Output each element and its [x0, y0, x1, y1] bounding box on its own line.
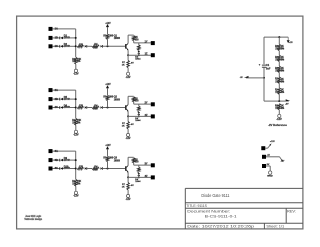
input terminal 3A: [49, 149, 53, 153]
wire collector up: [127, 35, 129, 43]
wire emitter down: [127, 172, 129, 177]
label value 3: [281, 67, 285, 73]
label D2 1N4454: [64, 43, 71, 48]
wire resistor to +12V: [107, 27, 109, 34]
+12V diagonal power arrow: [268, 143, 272, 148]
label 15K: [77, 120, 82, 124]
svg-text:3Z: 3Z: [145, 175, 148, 178]
label +12V: [105, 144, 110, 147]
net label 3C: [55, 166, 58, 170]
-12V power port (emitter): [127, 133, 130, 136]
label 560: [93, 46, 98, 49]
wire to -12V port (reference): [278, 110, 280, 115]
junction pull-up: [107, 107, 109, 109]
resistor R5 (interstage): [138, 45, 141, 50]
junction cap branch: [263, 77, 265, 79]
label -12V (emitter): [126, 138, 132, 140]
output terminal 3Z: [151, 175, 155, 179]
resistor R7 560: [92, 106, 99, 109]
svg-text:Date: 10/27/2012 10:20:26p: Date: 10/27/2012 10:20:26p: [187, 223, 255, 228]
resistor R12 330 (output): [132, 158, 135, 163]
wire to output 1: [134, 164, 151, 166]
wire resistor to -12V port: [127, 190, 129, 195]
svg-text:15K: 15K: [72, 183, 77, 185]
net label 1Z: [145, 53, 148, 56]
svg-text:15K: 15K: [77, 181, 82, 183]
label R25: [275, 104, 285, 110]
svg-text:15K: 15K: [72, 122, 77, 124]
wire resistor to -12V port: [75, 64, 77, 69]
wire to output 1: [134, 103, 151, 105]
label 1K: [122, 126, 125, 128]
output terminal 1Y: [151, 41, 155, 45]
label R4: [94, 165, 98, 168]
resistor R9 (interstage): [138, 106, 141, 111]
resistor R24 (reference chain): [278, 88, 281, 95]
svg-text:TITLE: 9111S: TITLE: 9111S: [186, 203, 207, 208]
label D13: [135, 178, 141, 183]
label R4: [94, 104, 98, 107]
svg-text:-12V: -12V: [126, 138, 132, 140]
label +12V (terminal): [270, 141, 275, 143]
label R3: [103, 35, 107, 38]
input terminal 2B: [49, 97, 53, 101]
svg-text:5%: 5%: [77, 61, 80, 63]
resistor R6 15K (bus pulldown): [75, 118, 78, 125]
resistor R11 560: [92, 167, 99, 170]
svg-text:5%: 5%: [77, 183, 80, 185]
junction bus row2: [75, 37, 77, 39]
wire emitter down: [127, 111, 129, 116]
label value 2: [281, 56, 285, 62]
wire to R4: [87, 168, 92, 170]
label -2V right: [285, 104, 289, 106]
resistor R20 (reference chain): [278, 44, 281, 51]
resistor R10 1K (emitter): [127, 122, 130, 130]
diode D5: [138, 51, 140, 55]
svg-text:390: 390: [109, 157, 114, 160]
wire junction to pull-up resistor: [107, 101, 109, 108]
label +12V (reference): [289, 42, 293, 44]
wire -2V tap left: [246, 77, 264, 79]
svg-text:+12V: +12V: [105, 83, 110, 86]
resistor R6 1K (emitter): [127, 60, 130, 68]
wire 1A to bus: [52, 28, 75, 30]
svg-text:Document Number:: Document Number:: [187, 208, 230, 213]
svg-text:3Y: 3Y: [145, 163, 148, 166]
wire -12V terminal: [266, 156, 280, 158]
document number caption: [187, 208, 230, 213]
wire chain top: [138, 104, 140, 106]
capacitor C1: [259, 64, 266, 68]
label D9: [135, 117, 141, 122]
resistor R25 (to -12V): [278, 104, 281, 110]
designer note line 2: [24, 218, 42, 221]
svg-text:-12V: -12V: [126, 199, 132, 201]
diode D10: [60, 167, 63, 170]
label R7: [122, 184, 126, 186]
-12V diagonal power arrow: [280, 157, 284, 162]
-12V power port (reference): [278, 114, 281, 117]
wire cap branch bottom: [264, 78, 279, 101]
wire chain segment 1: [278, 37, 280, 44]
wire to base junction: [103, 168, 126, 170]
svg-text:Tektronix design: Tektronix design: [24, 218, 42, 221]
label R23: [275, 78, 280, 84]
transistor Q1: [125, 43, 129, 50]
wire 3A to bus: [52, 150, 75, 152]
label 1K: [122, 187, 125, 189]
svg-text:-2V: -2V: [240, 77, 243, 79]
label R5 330: [135, 37, 140, 41]
label Q2 2N3638: [114, 96, 120, 102]
wire junction to pull-up resistor: [107, 39, 109, 46]
svg-text:1K: 1K: [122, 64, 125, 66]
wire 2C to diode D6: [52, 107, 59, 109]
label D1 1N4454: [64, 35, 71, 40]
wire emitter down: [127, 50, 129, 55]
label -6V: [130, 63, 134, 65]
wire to R4: [87, 107, 92, 109]
svg-text:-12V: -12V: [276, 118, 282, 121]
label -12V (emitter): [126, 199, 132, 201]
label -6V: [130, 124, 134, 126]
label D6 1N4454: [64, 104, 71, 109]
wire -2V tap right: [279, 100, 289, 102]
input terminal 1C: [49, 44, 53, 48]
wire 2A to bus: [52, 89, 75, 91]
svg-text:+12V: +12V: [105, 144, 110, 147]
label value 4: [281, 78, 285, 84]
wire resistor to -12V port: [127, 129, 129, 134]
net label 2C: [55, 105, 58, 109]
-2V arrow right: [286, 99, 291, 101]
net label 1Y: [145, 40, 148, 43]
svg-text:-12V: -12V: [73, 195, 79, 198]
label R21: [275, 56, 280, 62]
junction bus row2: [75, 98, 77, 100]
svg-text:270: 270: [79, 43, 84, 46]
wire reference top: [264, 36, 288, 38]
wire 2B to diode D5: [52, 98, 59, 100]
diode D4 (level shift): [101, 45, 103, 48]
net label 1B: [55, 36, 58, 40]
net label 2Y: [145, 102, 148, 105]
label Q3 2N3638: [114, 157, 120, 163]
label -12V (bus): [73, 72, 79, 75]
svg-text:-2V: -2V: [285, 104, 289, 106]
label R5 330: [135, 159, 140, 163]
label R5 330: [135, 98, 140, 102]
diode D1: [60, 37, 63, 40]
label GND: [267, 175, 273, 177]
resistor R21 (reference chain): [278, 55, 281, 62]
wire to output 2: [128, 54, 151, 56]
net label 3B: [55, 158, 58, 162]
ground port circle: [269, 171, 272, 174]
label D10 1N4454: [64, 165, 71, 170]
svg-text:+12V: +12V: [289, 42, 293, 44]
resistor R1 270: [77, 45, 83, 48]
title row TITLE 9111S: [186, 203, 207, 208]
wire to base junction: [103, 107, 126, 109]
label -12V (terminal): [281, 160, 285, 162]
label -2V Reference: [268, 123, 287, 127]
wire 3B to diode D9: [52, 159, 59, 161]
wire D5 to bus: [63, 98, 76, 100]
svg-text:+12V: +12V: [270, 141, 275, 143]
svg-text:5%: 5%: [77, 122, 80, 124]
bus wire vertical: [75, 29, 77, 57]
label R7: [122, 62, 126, 64]
label +12V: [105, 22, 110, 25]
junction bus row3: [75, 168, 77, 170]
svg-text:390: 390: [109, 96, 114, 99]
junction emitter: [127, 176, 129, 178]
diode D6: [60, 106, 63, 109]
label 560: [93, 169, 98, 172]
net label 1C: [55, 44, 58, 48]
svg-text:REV:: REV:: [287, 210, 296, 214]
input terminal 3C: [49, 167, 53, 171]
schematic border frame: [17, 16, 303, 229]
input terminal 1B: [49, 36, 53, 40]
net label 3A: [55, 149, 58, 153]
svg-text:Sheet: 1/1: Sheet: 1/1: [266, 223, 285, 228]
label 270: [79, 166, 84, 169]
+12V power arrow: [106, 146, 109, 149]
net label GND stub: [267, 164, 270, 166]
diode D9: [138, 112, 140, 116]
svg-text:-12V: -12V: [73, 72, 79, 75]
label 390: [109, 96, 114, 99]
junction bus row2: [75, 159, 77, 161]
title text Diode Gate 9111: [201, 193, 229, 198]
label 1K: [122, 64, 125, 66]
-12V power port (emitter): [127, 72, 130, 75]
svg-text:Joes 9111 Logic: Joes 9111 Logic: [25, 215, 42, 218]
wire to output 2: [128, 176, 151, 178]
resistor R23 (reference chain): [278, 77, 281, 84]
svg-text:-6V: -6V: [130, 185, 134, 187]
junction -2V tap: [278, 100, 280, 102]
svg-text:-12V: -12V: [73, 134, 79, 137]
resistor R4 330 (output): [132, 36, 135, 41]
svg-text:B-CS-9111-0-1: B-CS-9111-0-1: [205, 213, 237, 218]
svg-text:2N3638: 2N3638: [114, 98, 120, 101]
input terminal 2A: [49, 88, 53, 92]
svg-text:560: 560: [93, 169, 98, 172]
wire collector up: [127, 96, 129, 104]
svg-text:2N3638: 2N3638: [114, 37, 120, 40]
junction bus row3: [75, 107, 77, 109]
label value 5: [281, 89, 285, 95]
label C1 3uF: [266, 64, 271, 70]
wire chain segment 3: [278, 62, 280, 66]
svg-text:15K: 15K: [77, 59, 82, 61]
net label 3Y: [145, 163, 148, 166]
label 270: [79, 105, 84, 108]
wire collector top: [128, 156, 134, 158]
label +12V: [105, 83, 110, 86]
svg-text:270: 270: [79, 105, 84, 108]
wire resistor to +12V: [107, 88, 109, 95]
wire cap branch down: [263, 37, 265, 64]
label -12V (emitter): [126, 77, 132, 79]
svg-text:1Z: 1Z: [145, 53, 148, 56]
label 560: [93, 108, 98, 111]
wire collector top: [128, 95, 134, 97]
junction bus row3: [75, 45, 77, 47]
wire to R4: [87, 45, 92, 47]
output terminal 1Z: [151, 53, 155, 57]
power terminal +12V: [261, 146, 265, 150]
output terminal 3Y: [151, 163, 155, 167]
+12V power arrow: [106, 24, 109, 27]
wire resistor to -12V port: [75, 125, 77, 130]
wire chain to tap: [278, 94, 280, 101]
wire chain segment 2: [278, 51, 280, 55]
label R10: [72, 181, 77, 185]
wire D10 to bus: [63, 168, 76, 170]
wire junction to pull-up resistor: [107, 162, 109, 169]
label -12V (bus): [73, 134, 79, 137]
wire R5 down: [133, 41, 135, 43]
label R24: [275, 89, 280, 95]
svg-text:15K: 15K: [72, 61, 77, 63]
date row: [187, 223, 255, 228]
label 15K: [77, 181, 82, 185]
svg-text:270: 270: [79, 166, 84, 169]
svg-text:2Z: 2Z: [145, 114, 148, 117]
wire chain segment 4: [278, 73, 280, 77]
svg-text:-12V: -12V: [126, 77, 132, 79]
diode D7 (level shift): [85, 106, 87, 109]
power terminal -12V: [262, 155, 266, 159]
svg-text:15K: 15K: [77, 120, 82, 122]
wire collector up: [127, 157, 129, 165]
label 390: [109, 157, 114, 160]
wire resistor to -12V port: [75, 186, 77, 191]
label R3: [103, 96, 107, 99]
label -12V (bus): [73, 195, 79, 198]
transistor Q2: [125, 105, 129, 112]
svg-text:390: 390: [109, 35, 114, 38]
junction reference top: [278, 36, 280, 38]
power terminal GND: [262, 164, 266, 168]
resistor R22 (reference chain): [278, 66, 281, 73]
net label 2A: [55, 88, 58, 92]
wire 1B to diode D1: [52, 37, 59, 39]
designer note line 1: [25, 215, 42, 218]
resistor R5 270: [77, 106, 83, 109]
label -6V: [130, 185, 134, 187]
resistor R13 (interstage): [138, 167, 141, 172]
resistor R8 330 (output): [132, 97, 135, 102]
-12V power port (bus): [74, 191, 77, 194]
resistor R8 390 (pull-up): [106, 156, 109, 161]
label -12V (reference): [276, 118, 282, 121]
wire emitter to resistor: [127, 55, 129, 60]
diode D5: [60, 98, 63, 101]
wire cap to junction: [263, 67, 265, 78]
wire +12V terminal: [265, 147, 267, 149]
svg-text:1Y: 1Y: [145, 40, 148, 43]
wire D1 to bus: [63, 37, 76, 39]
svg-text:560: 560: [93, 108, 98, 111]
junction chain/output2: [138, 176, 140, 178]
net label 2B: [55, 97, 58, 101]
-12V power port (emitter): [127, 194, 130, 197]
bus wire vertical: [75, 90, 77, 118]
junction emitter: [127, 54, 129, 56]
input terminal 2C: [49, 106, 53, 110]
-12V power port (bus): [74, 130, 77, 133]
diode D13: [138, 173, 140, 177]
wire D2 to bus: [63, 45, 76, 47]
wire D6 to bus: [63, 107, 76, 109]
resistor R14 1K (emitter): [127, 183, 130, 191]
label value 1: [281, 45, 285, 51]
wire to output 1: [134, 42, 151, 44]
resistor R3 560: [92, 45, 99, 48]
wire D9 to bus: [63, 159, 76, 161]
-12V power port (bus): [74, 69, 77, 72]
junction emitter: [127, 115, 129, 117]
bus wire vertical: [75, 151, 77, 179]
label 270: [79, 43, 84, 46]
document number value: [205, 213, 237, 218]
wire emitter to resistor: [127, 116, 129, 121]
wire 1C to diode D2: [52, 45, 59, 47]
wire to output 2: [128, 115, 151, 117]
label R6: [72, 120, 77, 124]
svg-text:1K: 1K: [122, 187, 125, 189]
input terminal 1A: [49, 27, 53, 31]
label R4: [94, 43, 98, 46]
label 390: [109, 35, 114, 38]
diode D12 (level shift): [101, 167, 103, 170]
junction chain/output2: [138, 115, 140, 117]
resistor R9 270: [77, 167, 83, 170]
diode D2: [60, 45, 63, 48]
junction pull-up: [107, 168, 109, 170]
label R2: [72, 59, 77, 63]
+12V power arrow: [106, 85, 109, 88]
wire GND terminal: [266, 166, 270, 171]
label R22: [275, 67, 280, 73]
net label 1A: [55, 27, 58, 31]
output terminal 2Z: [151, 114, 155, 118]
svg-text:-12V: -12V: [281, 160, 285, 162]
wire resistor to -12V port: [127, 68, 129, 73]
title block outline: [185, 188, 303, 229]
wire to base junction: [103, 45, 126, 47]
label R3: [103, 157, 107, 160]
-2V arrow left: [244, 76, 249, 78]
svg-text:GND: GND: [267, 175, 273, 177]
label -2V left: [240, 77, 243, 79]
svg-text:2Y: 2Y: [145, 102, 148, 105]
svg-text:3uF: 3uF: [266, 68, 271, 71]
junction chain/output2: [138, 54, 140, 56]
wire collector top: [128, 34, 134, 36]
net label 3Z: [145, 175, 148, 178]
svg-text:+12V: +12V: [105, 22, 110, 25]
rev caption: [287, 210, 296, 214]
transistor Q3: [125, 166, 129, 173]
svg-text:Diode Gate 9111: Diode Gate 9111: [201, 193, 229, 198]
